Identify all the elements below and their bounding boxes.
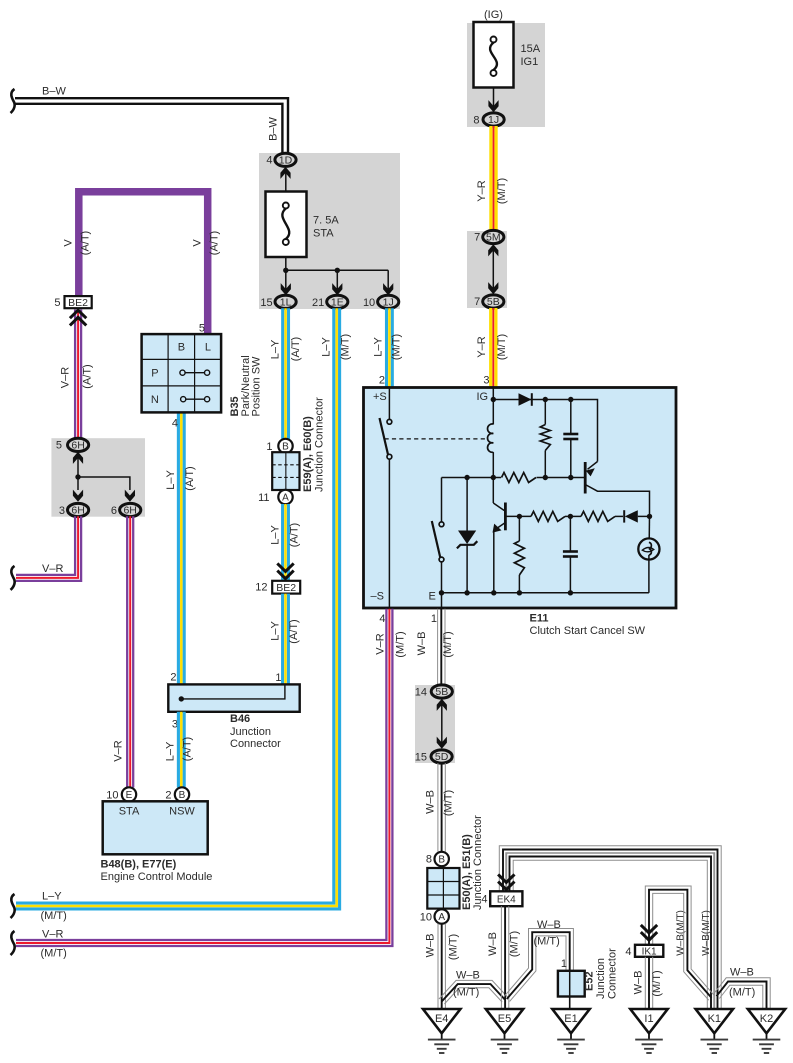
- arrow into 1J: [488, 100, 498, 112]
- svg-text:Junction Connector: Junction Connector: [314, 397, 326, 492]
- wire W-B (M/T) from E5 riser to E52: [504, 929, 573, 997]
- wire Y-R (M/T) from 5B to E11 pin IG: [494, 308, 497, 387]
- svg-text:E52: E52: [584, 971, 596, 991]
- svg-text:5D: 5D: [435, 751, 449, 763]
- svg-text:Connector: Connector: [230, 738, 281, 750]
- mid rail base Q1: [442, 477, 586, 479]
- transistor Q1 PNP: [584, 462, 587, 494]
- distribution bus to 1L 1E 1J: [286, 270, 388, 290]
- page break squiggle B-W: [11, 89, 15, 113]
- wire W-B (M/T) from EK4 to ground E5: [508, 906, 510, 1009]
- svg-text:W–B: W–B: [487, 932, 499, 956]
- svg-text:W–B(M/T): W–B(M/T): [675, 910, 686, 956]
- transistor Q2 NPN: [492, 478, 494, 504]
- svg-text:4: 4: [379, 613, 385, 625]
- svg-text:(M/T): (M/T): [390, 334, 402, 360]
- arrow into 1J: [383, 283, 393, 295]
- svg-text:(A/T): (A/T): [181, 737, 193, 761]
- svg-text:8: 8: [426, 854, 432, 866]
- resistor R4: [581, 511, 615, 521]
- svg-text:2: 2: [165, 790, 171, 802]
- svg-text:(M/T): (M/T): [453, 987, 479, 999]
- svg-text:7. 5A: 7. 5A: [313, 214, 339, 226]
- arrow into 3 6H: [73, 490, 83, 502]
- svg-text:IG1: IG1: [521, 56, 539, 68]
- svg-text:B48(B), E77(E): B48(B), E77(E): [101, 859, 177, 871]
- svg-text:Clutch Start Cancel SW: Clutch Start Cancel SW: [530, 625, 646, 637]
- node IG: [491, 397, 496, 402]
- park/neutral position switch B35: [142, 334, 222, 412]
- svg-text:+S: +S: [373, 391, 387, 403]
- contact P row: [183, 372, 208, 374]
- svg-text:1: 1: [561, 958, 567, 970]
- svg-text:–S: –S: [371, 591, 384, 603]
- shaded box: 5B/5D connector pass-through: [415, 685, 455, 763]
- top rail IG: [493, 400, 597, 462]
- svg-text:Junction: Junction: [595, 958, 607, 999]
- node C2 bottom: [568, 590, 573, 595]
- svg-text:E: E: [126, 790, 133, 801]
- svg-text:B–W: B–W: [267, 116, 279, 140]
- arrow into 1E: [332, 283, 342, 295]
- svg-text:(M/T): (M/T): [442, 631, 454, 657]
- svg-text:V–R: V–R: [42, 929, 63, 941]
- svg-text:V–R: V–R: [59, 367, 71, 388]
- wire V-R (M/T) from E11 -S to page break: [16, 609, 392, 946]
- wire V-R from 3 6H to page break: [16, 516, 81, 581]
- svg-text:B: B: [438, 855, 445, 866]
- svg-text:K1: K1: [708, 1013, 721, 1025]
- svg-text:NSW: NSW: [169, 806, 195, 818]
- svg-text:(A/T): (A/T): [81, 364, 93, 388]
- junction connector E59(A) E60(B): [272, 452, 299, 490]
- diode D2: [625, 510, 638, 522]
- shaded box: 5M/5B connector pass-through: [467, 231, 507, 308]
- node 6H branch: [75, 474, 80, 479]
- svg-text:14: 14: [415, 687, 427, 699]
- relay coil: [492, 400, 494, 425]
- wire V-R (A/T) from BE2 to 6H: [80, 310, 82, 439]
- svg-text:V–R: V–R: [374, 633, 386, 654]
- capacitor C1: [570, 400, 572, 435]
- svg-text:15: 15: [415, 752, 427, 764]
- svg-text:Y–R: Y–R: [476, 336, 488, 357]
- svg-text:4: 4: [481, 894, 487, 906]
- svg-text:(M/T): (M/T): [447, 934, 459, 960]
- svg-text:Engine Control Module: Engine Control Module: [101, 871, 213, 883]
- svg-text:(M/T): (M/T): [442, 790, 454, 816]
- svg-text:4: 4: [625, 946, 631, 958]
- svg-text:L–Y: L–Y: [321, 337, 333, 357]
- svg-text:(A/T): (A/T): [184, 466, 196, 490]
- wire fuse STA to distribution node: [285, 257, 287, 270]
- resistor R2: [501, 471, 537, 484]
- svg-text:1L: 1L: [280, 297, 292, 309]
- shaded box: starter relay / STA fuse area: [259, 153, 400, 309]
- resistor R3: [531, 511, 565, 521]
- svg-text:E: E: [429, 591, 436, 603]
- wire L-Y (M/T) from 1E to page break bottom left: [16, 308, 340, 909]
- wire between 5M and 5B: [492, 250, 494, 289]
- ground I1: [630, 1009, 667, 1033]
- svg-text:6: 6: [111, 505, 117, 517]
- svg-text:E1: E1: [564, 1013, 577, 1025]
- svg-text:L–Y: L–Y: [269, 621, 281, 641]
- junction connector E52: [558, 971, 585, 997]
- svg-text:(M/T): (M/T): [41, 910, 67, 922]
- wire W-B (M/T) from E11 E to 5B: [444, 609, 446, 685]
- wire L-Y (A/T) from BE2 to B46 pin 1: [287, 594, 290, 685]
- svg-text:B–W: B–W: [42, 86, 66, 98]
- svg-text:W–B: W–B: [424, 934, 436, 958]
- svg-text:B: B: [282, 442, 289, 453]
- svg-text:L–Y: L–Y: [165, 470, 177, 490]
- arrow into 1L: [281, 283, 291, 295]
- wire L-Y (A/T) from B35 to B46: [183, 412, 186, 684]
- arrow down above 5D: [437, 737, 447, 749]
- svg-text:7: 7: [474, 296, 480, 308]
- svg-text:Junction: Junction: [230, 726, 271, 738]
- svg-text:E5: E5: [498, 1013, 511, 1025]
- svg-text:1J: 1J: [383, 297, 394, 309]
- svg-text:V: V: [62, 239, 74, 247]
- svg-text:L–Y: L–Y: [269, 339, 281, 359]
- svg-text:A: A: [282, 493, 289, 504]
- wire 6H branch: [78, 457, 130, 490]
- wire L-Y (A/T) from A to BE2: [287, 504, 290, 581]
- svg-text:1: 1: [431, 613, 437, 625]
- resistor R1: [544, 400, 546, 425]
- wire 1D to fuse STA: [285, 172, 287, 192]
- svg-text:STA: STA: [313, 227, 334, 239]
- svg-text:EK4: EK4: [497, 895, 516, 906]
- svg-text:V–R: V–R: [42, 563, 63, 575]
- node at 1L branch: [283, 268, 288, 273]
- svg-text:(A/T): (A/T): [288, 523, 300, 547]
- wire W-B (M/T) from K1 riser to ground K2: [714, 978, 771, 1009]
- wire W-B from K1 riser to IK1: [645, 886, 714, 995]
- node C1 top: [568, 397, 573, 402]
- node R5 bottom: [517, 590, 522, 595]
- svg-text:W–B: W–B: [424, 790, 436, 814]
- svg-text:L–Y: L–Y: [372, 337, 384, 357]
- svg-text:W–B: W–B: [456, 970, 480, 982]
- svg-text:(IG): (IG): [484, 9, 503, 21]
- svg-text:1J: 1J: [488, 114, 499, 126]
- svg-text:L: L: [205, 342, 211, 354]
- svg-text:3: 3: [483, 375, 489, 387]
- svg-text:5M: 5M: [486, 232, 501, 244]
- node base divider: [517, 514, 522, 519]
- svg-text:K2: K2: [760, 1013, 773, 1025]
- svg-text:A: A: [438, 912, 445, 923]
- wire B-W from page break to connector 1D: [15, 98, 288, 153]
- svg-text:W–B: W–B: [416, 632, 428, 656]
- svg-text:4: 4: [172, 418, 178, 430]
- page break squiggle V-R: [11, 566, 15, 590]
- node zener bottom: [464, 590, 469, 595]
- wire E52 to ground E1: [569, 997, 571, 1010]
- node E pin: [439, 590, 444, 595]
- diode D1: [519, 393, 532, 406]
- ground K1: [696, 1009, 733, 1033]
- shaded box: ignition switch area (IG1 fuse): [467, 23, 545, 127]
- svg-text:6H: 6H: [71, 505, 84, 517]
- wire L-Y (A/T) from 1L to junction connector B: [287, 308, 290, 439]
- svg-text:W–B: W–B: [632, 971, 644, 995]
- svg-text:STA: STA: [119, 806, 140, 818]
- double chevron into IK1: [641, 925, 657, 940]
- svg-text:W–B(M/T): W–B(M/T): [701, 910, 712, 956]
- node Q2 emitter: [491, 590, 496, 595]
- svg-text:(M/T): (M/T): [41, 948, 67, 960]
- svg-text:8: 8: [473, 115, 479, 127]
- test switch SW2: [441, 478, 443, 523]
- wire W-B (M/T) from A to ground E4: [444, 924, 446, 1010]
- svg-text:6H: 6H: [71, 440, 84, 452]
- svg-text:(M/T): (M/T): [534, 936, 560, 948]
- ground E4: [423, 1009, 460, 1033]
- svg-text:21: 21: [312, 297, 324, 309]
- svg-text:5B: 5B: [487, 296, 500, 308]
- arrow up below 5M: [488, 244, 498, 256]
- svg-text:Y–R: Y–R: [476, 180, 488, 201]
- svg-text:11: 11: [258, 492, 269, 504]
- wire V (A/T) from BE2 up over to park/neutral switch B35: [79, 192, 208, 334]
- svg-text:V: V: [191, 239, 203, 247]
- svg-text:E11: E11: [530, 613, 549, 625]
- node C1 bottom: [568, 475, 573, 480]
- svg-text:(M/T): (M/T): [394, 631, 406, 657]
- wire W-B (M/T) from IK1 to ground I1: [652, 957, 654, 1009]
- ground K2: [748, 1009, 785, 1033]
- wire switch to -S: [388, 459, 390, 608]
- dashed mechanical link: [385, 438, 488, 440]
- fuse STA 7.5A: [266, 192, 307, 258]
- svg-text:1D: 1D: [279, 155, 293, 167]
- svg-text:10: 10: [363, 297, 375, 309]
- svg-text:(A/T): (A/T): [208, 231, 220, 255]
- svg-text:IK1: IK1: [642, 947, 657, 958]
- junction connector E50(A) E51(B): [427, 868, 459, 909]
- svg-text:(M/T): (M/T): [651, 970, 663, 996]
- svg-text:I1: I1: [644, 1013, 653, 1025]
- svg-text:7: 7: [474, 232, 480, 244]
- resistor R5: [518, 516, 520, 541]
- svg-text:12: 12: [255, 582, 267, 594]
- svg-text:1: 1: [275, 672, 281, 684]
- wire +S to switch: [388, 388, 390, 420]
- svg-text:(M/T): (M/T): [729, 987, 755, 999]
- svg-text:E59(A), E60(B): E59(A), E60(B): [302, 416, 314, 492]
- ground rail E: [442, 592, 649, 594]
- contact N row: [183, 398, 207, 400]
- svg-text:(M/T): (M/T): [339, 334, 351, 360]
- internal link B46: [181, 686, 285, 699]
- svg-text:5: 5: [199, 323, 205, 335]
- double chevron into EK4: [498, 874, 514, 889]
- svg-text:(M/T): (M/T): [496, 334, 508, 360]
- ground E1: [552, 1009, 589, 1033]
- svg-text:(M/T): (M/T): [496, 178, 508, 204]
- indicator lamp: [648, 516, 650, 542]
- base rail Q2: [505, 515, 531, 517]
- svg-text:B: B: [178, 342, 185, 354]
- svg-text:2: 2: [379, 375, 385, 387]
- arrow into 6 6H: [125, 490, 135, 502]
- node coil bottom: [491, 475, 496, 480]
- svg-text:BE2: BE2: [68, 297, 88, 309]
- svg-text:(A/T): (A/T): [290, 337, 302, 361]
- wire W-B inner from EK4 over to ground K1: [506, 853, 715, 1009]
- svg-text:L–Y: L–Y: [164, 741, 176, 761]
- svg-text:(M/T): (M/T): [508, 931, 520, 957]
- svg-text:W–B: W–B: [537, 919, 561, 931]
- svg-text:5: 5: [56, 440, 62, 452]
- svg-text:L–Y: L–Y: [269, 525, 281, 545]
- zener diode ZD1: [466, 478, 468, 531]
- arrow down above 5B: [488, 282, 498, 294]
- svg-text:4: 4: [266, 155, 272, 167]
- capacitor C2: [569, 516, 571, 551]
- ground E5: [486, 1009, 523, 1033]
- svg-text:5B: 5B: [435, 686, 448, 698]
- svg-text:5: 5: [54, 297, 60, 309]
- arrow up below 5B: [437, 699, 447, 711]
- arrow up below 5 6H: [73, 452, 83, 464]
- wire E pin to box edge: [441, 593, 443, 608]
- fuse IG1 15A: [474, 22, 514, 88]
- wire V-R from 6 6H to ECM terminal E: [132, 516, 134, 787]
- svg-text:N: N: [151, 394, 159, 406]
- wire IG node: [492, 388, 494, 400]
- clutch start cancel switch E11 box: [364, 388, 677, 609]
- wire W-B (M/T) link E4 to E5: [439, 980, 508, 999]
- wire L-Y (M/T) from 1J to E11 pin +S: [391, 308, 394, 387]
- junction connector B46: [168, 684, 299, 711]
- svg-text:Connector: Connector: [607, 948, 619, 999]
- main switch SW1: [380, 418, 389, 455]
- svg-text:10: 10: [420, 912, 432, 924]
- node zener top: [464, 475, 469, 480]
- wire W-B (M/T) from 5D to junction connector B: [444, 763, 446, 852]
- wire Y-R (M/T) from 1J to 5M: [495, 126, 498, 231]
- engine control module B48(B) E77(E): [103, 801, 208, 854]
- double chevron up into BE2: [70, 310, 86, 325]
- svg-text:15: 15: [260, 297, 272, 309]
- svg-text:IG: IG: [477, 391, 489, 403]
- node lamp top: [647, 514, 652, 519]
- svg-text:15A: 15A: [521, 43, 541, 55]
- svg-text:W–B: W–B: [730, 967, 754, 979]
- arrow up below 1D: [280, 167, 290, 179]
- node at 1E branch: [335, 268, 340, 273]
- svg-text:V–R: V–R: [113, 740, 125, 761]
- svg-text:B46: B46: [230, 713, 250, 725]
- svg-text:(A/T): (A/T): [79, 231, 91, 255]
- wire from fuse IG1 to connector 1J: [493, 87, 495, 113]
- svg-text:B: B: [179, 790, 186, 801]
- page break squiggle L-Y: [11, 894, 15, 918]
- page break squiggle V-R bottom: [11, 931, 15, 955]
- svg-text:10: 10: [106, 790, 118, 802]
- shaded box: 6H connector junction: [51, 438, 145, 517]
- node R1 top: [543, 397, 548, 402]
- wire W-B outer from EK4 up over to ground K1: [499, 846, 721, 1009]
- svg-text:3: 3: [59, 505, 65, 517]
- wire L-Y (A/T) from B46 to ECM NSW: [183, 712, 186, 788]
- svg-text:(A/T): (A/T): [288, 619, 300, 643]
- svg-text:Position SW: Position SW: [250, 356, 262, 417]
- svg-text:6H: 6H: [123, 505, 136, 517]
- svg-text:P: P: [151, 368, 158, 380]
- node R3 R4: [568, 514, 573, 519]
- double chevron down into BE2: [277, 563, 293, 578]
- svg-text:E4: E4: [435, 1013, 448, 1025]
- svg-text:BE2: BE2: [276, 582, 296, 594]
- svg-text:L–Y: L–Y: [42, 891, 62, 903]
- svg-text:1E: 1E: [331, 297, 344, 309]
- svg-text:2: 2: [170, 672, 176, 684]
- node R1 bottom: [543, 475, 548, 480]
